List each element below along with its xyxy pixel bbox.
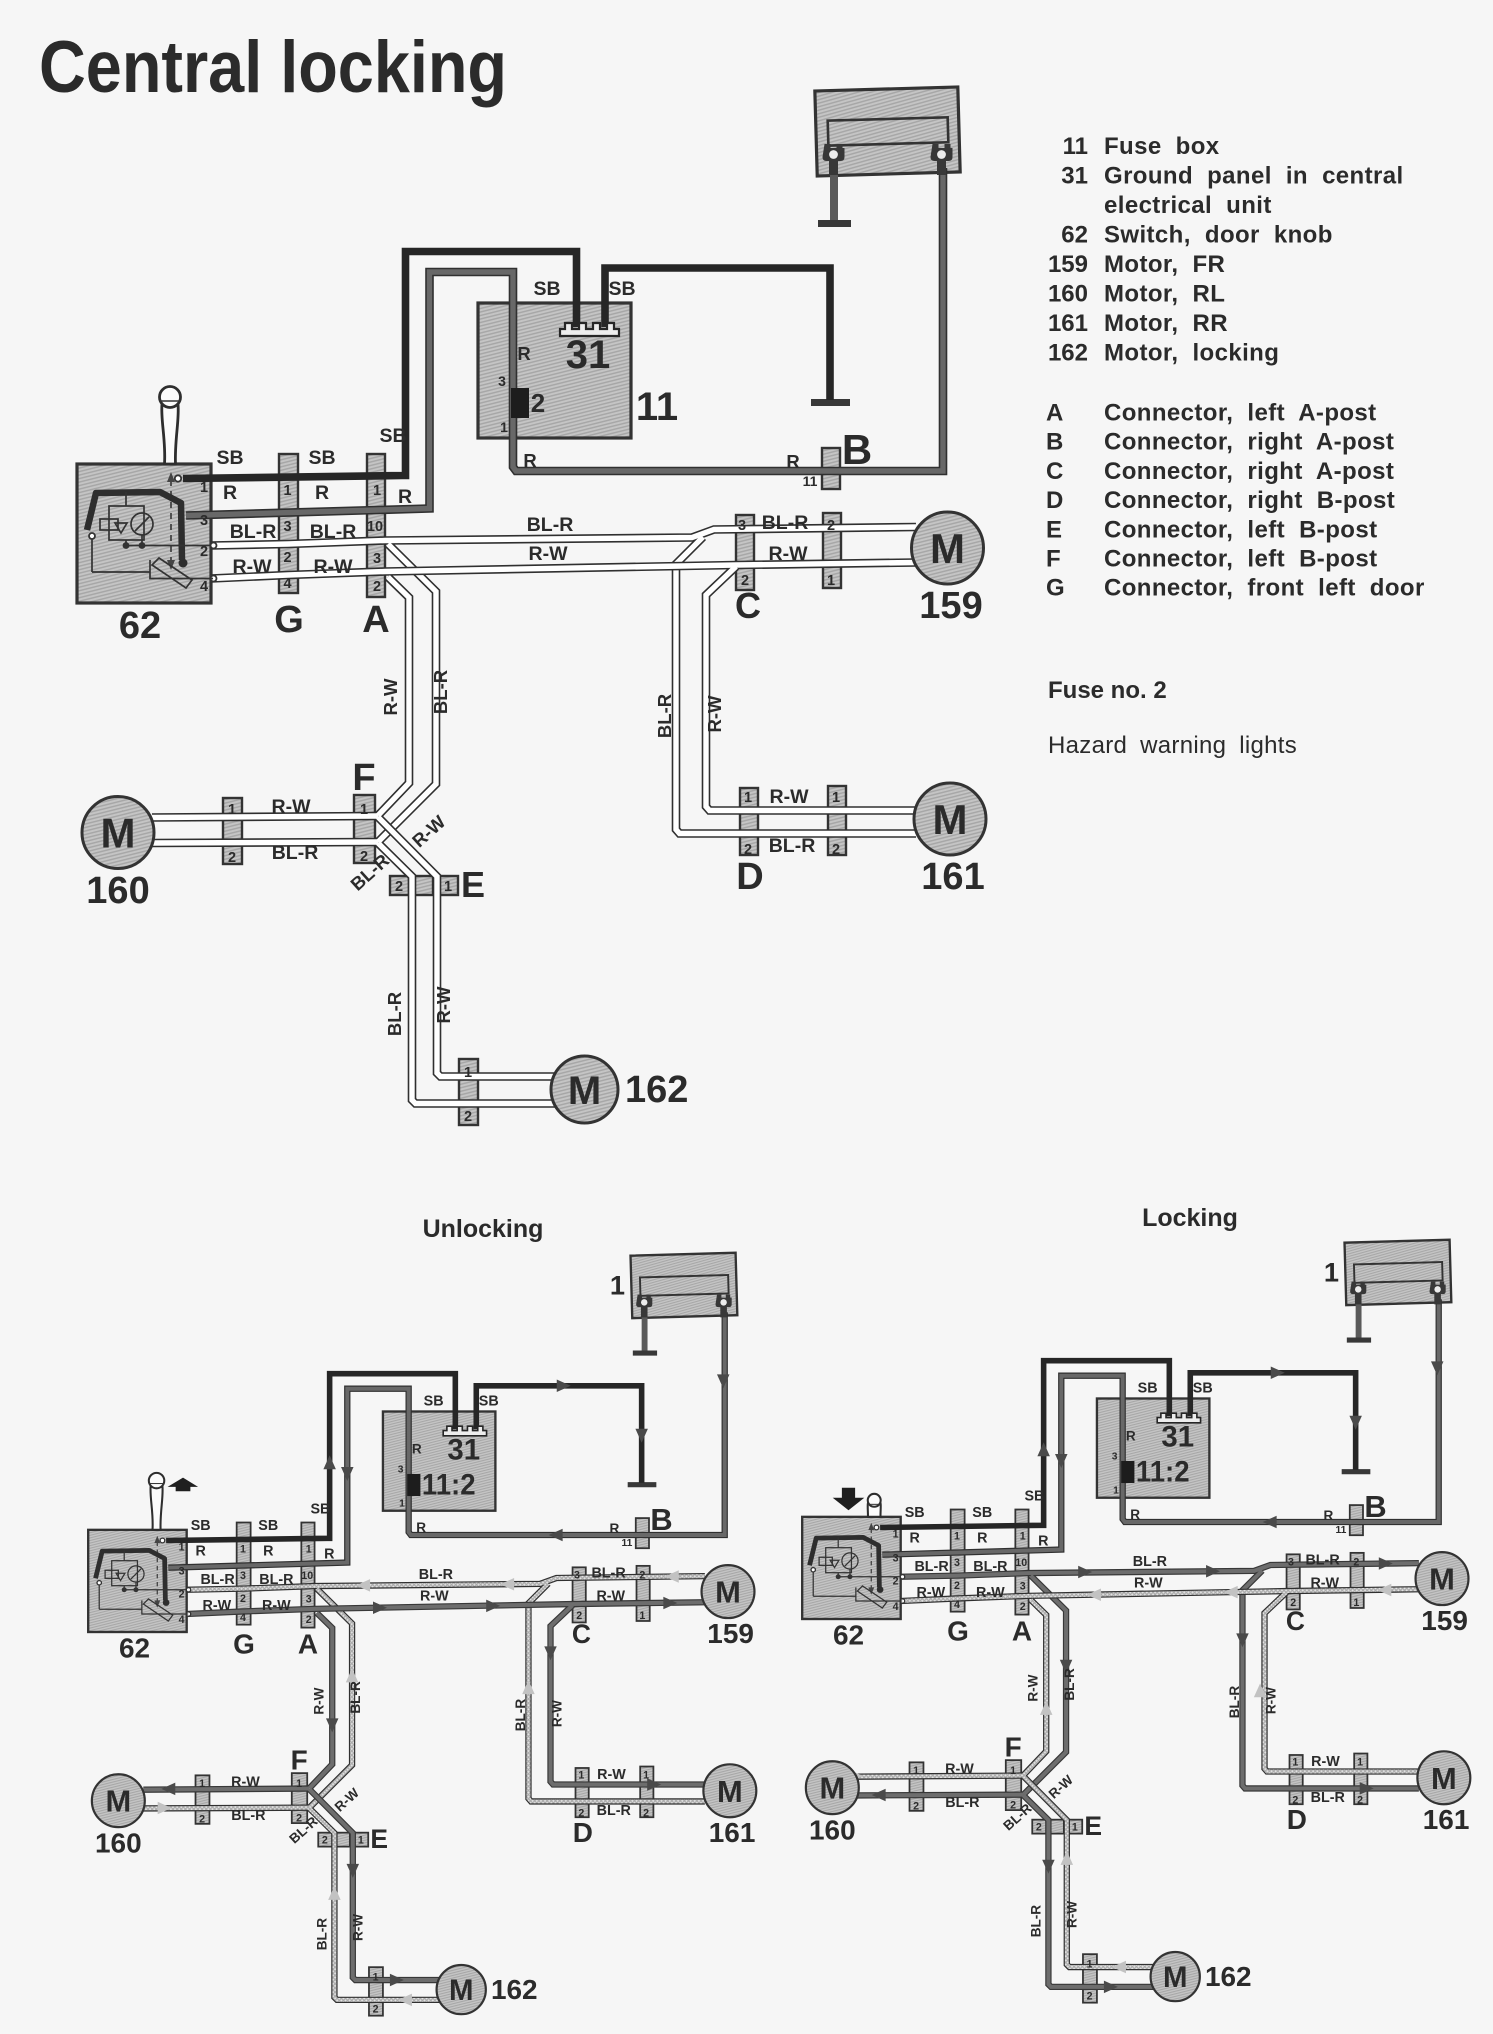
svg-text:C: C [1286,1606,1305,1636]
svg-text:M: M [715,1575,741,1610]
ground under battery (main diagram) [830,173,838,220]
wire BL-R branch A down to F pin2 (unlocking) core [309,1589,352,1808]
battery / supply box (main diagram) [815,87,960,176]
svg-text:R-W: R-W [945,1761,974,1777]
switch 62 pin1 contact (locking) [874,1525,879,1530]
svg-text:B: B [842,426,872,473]
svg-text:4: 4 [954,1599,960,1611]
connector 160 harness (main diagram) [223,798,242,864]
svg-text:31: 31 [1061,163,1088,190]
svg-text:1: 1 [643,1769,649,1781]
svg-text:4: 4 [200,579,208,595]
svg-text:162: 162 [491,1974,538,2005]
wire BL-R branch A down to F pin2 (main diagram) outline [378,544,436,842]
connector F (main diagram) [354,795,375,863]
svg-text:BL-R: BL-R [654,694,675,738]
svg-text:R: R [324,1547,335,1563]
wire R-W feed: switch pin4 through G/A to C and motor 159 (locking) outline [901,1589,1419,1601]
svg-text:R-W: R-W [332,1785,362,1814]
svg-text:11: 11 [803,473,818,489]
svg-text:R: R [786,451,799,472]
connector 161 harness (main diagram) [828,786,846,855]
switch 62 internal contact arm (main diagram) [87,492,182,560]
wire BL-R branch A down to F pin2 (locking) outline [1023,1576,1066,1795]
svg-text:3: 3 [398,1465,404,1476]
fuse box 11 body (unlocking) [383,1412,495,1511]
svg-text:1: 1 [1072,1822,1078,1834]
svg-text:Central locking: Central locking [39,27,507,108]
svg-text:3: 3 [240,1570,246,1582]
svg-text:159: 159 [1421,1605,1468,1636]
wire BL-R feed: switch pin2 through G/A to C and motor 159 (unlocking) core [187,1576,705,1590]
svg-text:3: 3 [738,518,746,534]
svg-text:G: G [1046,575,1065,602]
wire R-W branch at C down to D and motor 161 (main diagram) core [706,567,916,811]
svg-text:SB: SB [905,1505,925,1521]
wire BL-R motor 160 to F pin2 (main diagram) core [152,842,378,843]
svg-text:2: 2 [464,1109,472,1125]
svg-text:2: 2 [1292,1794,1298,1806]
connector 161 harness (locking) [1354,1754,1367,1805]
svg-text:4: 4 [893,1601,899,1613]
svg-text:R-W: R-W [1311,1754,1340,1770]
svg-text:R-W: R-W [350,1914,365,1941]
svg-text:F: F [291,1744,308,1775]
svg-text:2: 2 [395,879,403,895]
motor 159 (unlocking) [702,1565,755,1618]
svg-text:2: 2 [306,1614,312,1626]
switch 62 body (main diagram) [77,464,211,603]
svg-text:3: 3 [1288,1556,1294,1568]
svg-text:D: D [1046,487,1063,514]
svg-text:R-W: R-W [272,796,312,818]
svg-text:Connector, right A-post: Connector, right A-post [1104,458,1394,485]
wire R-W F pin1 via E to motor 162 (unlocking) outline [309,1789,439,1980]
svg-text:BL-R: BL-R [1028,1905,1043,1938]
wire R-W motor 160 to F pin1 (unlocking) core [143,1789,309,1790]
motor 159 (locking) [1416,1552,1469,1605]
wire R net: switch pin3 - fuse 11:2 - connector B - battery (unlocking) [168,1312,724,1567]
svg-text:1: 1 [744,790,752,806]
wire R-W feed: switch pin4 through G/A to C and motor 159 (main diagram) outline [211,563,916,579]
svg-text:2: 2 [373,2004,379,2016]
svg-text:2: 2 [179,1588,185,1600]
connector B (locking) [1350,1505,1363,1535]
svg-text:BL-R: BL-R [348,1681,363,1714]
switch 62 body (unlocking) [88,1530,186,1632]
svg-text:M: M [105,1784,131,1819]
svg-text:R-W: R-W [433,986,454,1024]
wire R-W F pin1 via E to motor 162 (locking) outline [1023,1776,1153,1967]
ground at right (SB) (locking) [1342,1468,1371,1475]
svg-text:SB: SB [972,1505,992,1521]
svg-text:BL-R: BL-R [259,1572,294,1588]
wire R-W branch A down to F pin1 (unlocking) outline [309,1613,332,1788]
connector F (locking) [1006,1760,1021,1810]
svg-text:3: 3 [893,1553,899,1565]
svg-text:1: 1 [639,1610,645,1622]
motor 159 (main diagram) [912,512,984,584]
svg-text:1: 1 [578,1769,584,1781]
svg-text:R-W: R-W [1046,1772,1076,1801]
svg-text:R: R [412,1441,422,1456]
wire BL-R motor 160 to F pin2 (locking) outline [857,1790,1023,1799]
svg-text:M: M [1431,1761,1457,1796]
connector D (locking) [1290,1755,1303,1804]
wire R net: switch pin3 - fuse 11:2 - connector B - battery (main diagram) [186,168,943,516]
wire R-W F pin1 via E to motor 162 (main diagram) outline [378,817,555,1077]
svg-text:11: 11 [636,385,678,429]
svg-text:1: 1 [1324,1257,1339,1288]
svg-text:2: 2 [893,1575,899,1587]
svg-text:R-W: R-W [1264,1687,1279,1714]
svg-text:SB: SB [379,425,406,447]
switch 62 pin1 contact (main diagram) [175,475,181,481]
switch 62 relay mechanism (main diagram) [92,492,213,572]
svg-text:159: 159 [1048,251,1088,278]
svg-text:BL-R: BL-R [230,521,277,543]
wire SB from ground panel 31 to right ground (locking) [1190,1373,1355,1470]
svg-text:Switch, door knob: Switch, door knob [1104,222,1333,249]
ground-panel comb symbol 31 (locking) [1157,1413,1200,1423]
svg-text:10: 10 [301,1570,313,1582]
svg-text:M: M [930,525,965,572]
svg-text:2: 2 [296,1813,302,1825]
svg-text:31: 31 [447,1433,480,1466]
switch 62 internal contact arm (unlocking) [96,1550,166,1600]
wire SB from switch pin1 through G/A up over to ground panel 31 (main diagram) [183,252,577,479]
svg-text:R: R [1126,1428,1136,1443]
svg-text:R: R [315,482,329,504]
wire R-W motor 160 to F pin1 (locking) outline [857,1776,1023,1777]
svg-text:1: 1 [610,1270,625,1301]
connector G (main diagram) [279,454,298,593]
svg-text:E: E [1084,1811,1102,1841]
svg-text:1: 1 [893,1528,899,1540]
wire R-W motor 160 to F pin1 (main diagram) core [152,816,378,818]
wire R-W F pin1 via E to motor 162 (main diagram) core [378,817,555,1077]
svg-text:G: G [947,1615,969,1646]
switch 62 pin2/pin4 terminals (locking) [900,1575,904,1579]
svg-text:SB: SB [1025,1489,1045,1505]
svg-text:1: 1 [1010,1765,1016,1777]
svg-text:electrical unit: electrical unit [1104,192,1272,219]
svg-text:R: R [1038,1534,1049,1550]
ground at right (SB) (unlocking) [628,1481,657,1488]
svg-text:2: 2 [1020,1601,1026,1613]
connector A (unlocking) [301,1522,314,1627]
switch 62 relay mechanism (locking) [813,1537,902,1596]
svg-text:BL-R: BL-R [1311,1790,1346,1806]
svg-text:BL-R: BL-R [527,514,574,536]
svg-text:A: A [362,599,389,641]
switch 62 internal dashed axis (locking) [870,1529,872,1589]
svg-text:Fuse box: Fuse box [1104,133,1220,160]
wire R net: switch pin3 - fuse 11:2 - connector B - battery (locking) [882,1299,1438,1554]
svg-text:2: 2 [1290,1597,1296,1609]
svg-text:R-W: R-W [1064,1901,1079,1928]
svg-text:SB: SB [533,278,560,300]
svg-text:R-W: R-W [1310,1575,1339,1591]
wire R-W branch at C down to D and motor 161 (locking) core [1265,1592,1419,1771]
svg-text:31: 31 [566,333,611,377]
wire R-W motor 160 to F pin1 (main diagram) outline [152,816,378,818]
svg-text:2: 2 [741,573,749,589]
svg-text:1: 1 [228,802,236,818]
svg-text:R-W: R-W [596,1588,625,1604]
svg-text:R-W: R-W [202,1598,231,1614]
svg-text:C: C [572,1619,591,1649]
svg-text:11: 11 [622,1538,633,1549]
svg-text:3: 3 [1020,1581,1026,1593]
wire BL-R motor 160 to F pin2 (unlocking) core [143,1805,309,1811]
svg-text:161: 161 [709,1817,756,1848]
svg-text:Connector, left B-post: Connector, left B-post [1104,546,1377,573]
svg-text:2: 2 [322,1835,328,1847]
svg-text:3: 3 [200,513,208,529]
svg-text:Motor, RL: Motor, RL [1104,281,1225,308]
switch 62 body (locking) [802,1517,900,1619]
svg-text:Ground panel in central: Ground panel in central [1104,163,1404,190]
svg-text:Fuse no. 2: Fuse no. 2 [1048,677,1167,704]
svg-text:M: M [1429,1562,1455,1597]
svg-text:R-W: R-W [769,543,809,565]
wire BL-R feed: switch pin2 through G/A to C and motor 159 (main diagram) outline [211,527,916,546]
svg-text:BL-R: BL-R [314,1918,329,1951]
motor 162 (main diagram) [551,1056,618,1123]
svg-text:159: 159 [707,1618,754,1649]
svg-text:160: 160 [809,1815,856,1846]
wire BL-R branch at C down to D and motor 161 (main diagram) outline [676,537,916,834]
wire BL-R F pin2 via E to motor 162 (locking) outline [1023,1795,1153,1986]
svg-text:M: M [717,1774,743,1809]
fuse box 11 body (locking) [1097,1399,1209,1498]
svg-text:BL-R: BL-R [1062,1668,1077,1701]
svg-text:1: 1 [358,1835,364,1847]
svg-text:11: 11 [1063,133,1088,160]
ground under battery (unlocking) [641,1316,649,1351]
svg-text:C: C [735,585,761,626]
svg-text:3: 3 [306,1594,312,1606]
svg-text:BL-R: BL-R [430,670,451,714]
svg-text:1: 1 [1020,1531,1026,1543]
svg-text:1: 1 [954,1531,960,1543]
svg-text:R-W: R-W [314,556,354,578]
svg-text:R: R [610,1521,620,1536]
connector C (main diagram) [736,515,754,590]
svg-text:R: R [977,1531,988,1547]
wire R-W feed: switch pin4 through G/A to C and motor 159 (unlocking) core [187,1602,705,1614]
svg-text:M: M [819,1771,845,1806]
motor 161 (locking) [1417,1751,1470,1804]
svg-text:Connector, right A-post: Connector, right A-post [1104,429,1394,456]
svg-text:BL-R: BL-R [945,1795,980,1811]
svg-text:161: 161 [1423,1804,1470,1835]
wire BL-R feed: switch pin2 through G/A to C and motor 159 (unlocking) outline [187,1576,705,1590]
svg-text:R-W: R-W [233,556,273,578]
wire BL-R branch at C down to D and motor 161 (locking) core [1242,1570,1418,1788]
svg-text:Connector, front left door: Connector, front left door [1104,575,1425,602]
svg-text:1: 1 [399,1498,405,1509]
svg-text:E: E [1046,516,1062,543]
switch 62 internal dashed axis (unlocking) [156,1542,158,1602]
wire BL-R branch A down to F pin2 (main diagram) core [378,544,436,842]
svg-text:SB: SB [424,1394,444,1410]
svg-text:2: 2 [1357,1794,1363,1806]
motor 160 (unlocking) [92,1774,145,1827]
wire BL-R branch at C down to D and motor 161 (locking) outline [1242,1570,1418,1788]
svg-text:Connector, right B-post: Connector, right B-post [1104,487,1395,514]
wire BL-R F pin2 via E to motor 162 (unlocking) core [309,1808,439,1999]
wire BL-R F pin2 via E to motor 162 (main diagram) outline [378,843,555,1104]
connector 160 harness (locking) [910,1762,924,1811]
door-lock knob, pushed down (locking) [868,1496,881,1517]
svg-text:2: 2 [913,1800,919,1812]
svg-text:R: R [1130,1507,1140,1522]
svg-text:11:2: 11:2 [422,1469,476,1502]
motor 162 (unlocking) [437,1965,486,2014]
wire BL-R feed: switch pin2 through G/A to C and motor 159 (main diagram) core [211,527,916,546]
ground-panel comb symbol 31 (main diagram) [560,323,619,336]
svg-text:1: 1 [373,1971,379,1983]
svg-text:M: M [449,1974,473,2007]
svg-text:R-W: R-W [380,678,401,716]
wire R-W feed: switch pin4 through G/A to C and motor 159 (locking) core [901,1589,1419,1601]
svg-text:BL-R: BL-R [769,835,816,857]
svg-text:D: D [736,856,763,898]
svg-text:31: 31 [1161,1420,1194,1453]
wire R-W branch at C down to D and motor 161 (main diagram) outline [706,567,916,811]
svg-text:R-W: R-W [1025,1674,1040,1701]
switch 62 internal dashed axis (main diagram) [170,480,172,562]
svg-text:R-W: R-W [262,1598,291,1614]
svg-text:R: R [195,1544,206,1560]
svg-text:R-W: R-W [704,695,725,733]
actuation arrow pointing down (locking) [833,1488,865,1510]
wire R-W branch A down to F pin1 (locking) core [1023,1600,1046,1775]
svg-text:R: R [523,450,536,471]
svg-text:2: 2 [1036,1822,1042,1834]
svg-text:M: M [933,796,968,843]
svg-text:R-W: R-W [916,1585,945,1601]
actuation arrow pointing up (unlocking) [168,1478,199,1492]
ground at right (SB) (main diagram) [811,399,850,406]
svg-text:F: F [1046,546,1061,573]
fuse connector block 11:2 (main diagram) [511,388,529,418]
connector B (unlocking) [636,1518,649,1548]
svg-text:4: 4 [179,1614,185,1626]
svg-text:1: 1 [832,790,840,806]
svg-text:Motor, FR: Motor, FR [1104,251,1225,278]
door-lock knob, pulled up (main diagram) [162,397,179,465]
svg-text:1: 1 [1113,1485,1119,1496]
svg-text:BL-R: BL-R [310,521,357,543]
wire R-W branch A down to F pin1 (main diagram) core [378,577,409,816]
svg-text:62: 62 [119,1633,150,1664]
svg-text:2: 2 [240,1593,246,1605]
svg-text:Motor, locking: Motor, locking [1104,340,1279,367]
svg-text:2: 2 [643,1807,649,1819]
svg-text:160: 160 [86,870,149,912]
wire R-W motor 160 to F pin1 (locking) core [857,1776,1023,1777]
motor 160 (locking) [806,1761,859,1814]
svg-text:SB: SB [1138,1381,1158,1397]
svg-text:2: 2 [360,849,368,865]
switch 62 pin1 contact (unlocking) [160,1538,165,1543]
svg-text:1: 1 [444,879,452,895]
return arrows on R-W path (locking) [1087,1589,1101,1601]
wire R-W feed: switch pin4 through G/A to C and motor 159 (unlocking) outline [187,1602,705,1614]
wire R-W branch at C down to D and motor 161 (unlocking) outline [551,1605,705,1784]
switch 62 relay mechanism (unlocking) [99,1550,188,1609]
svg-text:F: F [352,757,375,799]
switch 62 slide contact (main diagram) [150,560,213,579]
wire SB from ground panel 31 to right ground (main diagram) [605,268,830,400]
wire SB from switch pin1 through G/A up over to ground panel 31 (unlocking) [166,1374,455,1541]
connector 160 harness (unlocking) [196,1775,210,1824]
svg-text:159: 159 [919,585,982,627]
svg-text:Unlocking: Unlocking [423,1215,544,1243]
svg-text:Connector, left A-post: Connector, left A-post [1104,400,1377,427]
connector E (unlocking) [318,1833,332,1847]
ground-panel comb symbol 31 (unlocking) [443,1426,486,1436]
svg-text:R-W: R-W [231,1774,260,1790]
fuse connector block 11:2 (locking) [1121,1461,1134,1483]
wire BL-R branch at C down to D and motor 161 (main diagram) core [676,537,916,834]
connector 159 harness (main diagram) [823,513,841,588]
svg-text:2: 2 [578,1807,584,1819]
svg-text:BL-R: BL-R [384,992,405,1036]
svg-text:3: 3 [1112,1452,1118,1463]
svg-text:2: 2 [373,579,381,595]
svg-text:3: 3 [954,1557,960,1569]
current-flow arrows on SB/R path (unlocking) [323,1455,335,1469]
svg-text:R-W: R-W [1134,1575,1163,1591]
svg-text:1: 1 [1353,1597,1359,1609]
wire R-W branch at C down to D and motor 161 (unlocking) core [551,1605,705,1784]
svg-text:B: B [1046,429,1063,456]
svg-text:10: 10 [367,519,383,535]
wire R-W branch A down to F pin1 (unlocking) core [309,1613,332,1788]
wire BL-R branch at C down to D and motor 161 (unlocking) outline [528,1583,704,1801]
svg-text:1: 1 [913,1765,919,1777]
svg-text:D: D [573,1817,593,1848]
svg-text:2: 2 [531,388,545,418]
svg-text:BL-R: BL-R [762,512,809,534]
wire R-W feed: switch pin4 through G/A to C and motor 159 (main diagram) core [211,563,916,579]
svg-text:1: 1 [1292,1756,1298,1768]
svg-text:Connector, left B-post: Connector, left B-post [1104,516,1377,543]
svg-text:1: 1 [360,802,368,818]
connector G (locking) [951,1509,965,1611]
switch 62 slide contact (locking) [856,1587,902,1601]
svg-text:1: 1 [240,1544,246,1556]
svg-text:A: A [298,1628,318,1659]
battery terminals (main diagram) [823,144,845,175]
svg-text:1: 1 [373,483,381,499]
svg-text:SB: SB [308,447,335,469]
current-flow arrows on SB/R path (locking) [1037,1442,1049,1456]
svg-text:R-W: R-W [976,1585,1005,1601]
wire BL-R F pin2 via E to motor 162 (locking) core [1023,1795,1153,1986]
connector 162 harness (main diagram) [459,1059,478,1125]
svg-text:11:2: 11:2 [1136,1456,1190,1489]
svg-text:BL-R: BL-R [591,1566,626,1582]
svg-text:R: R [223,482,237,504]
svg-text:M: M [101,810,136,857]
svg-text:3: 3 [283,519,291,535]
svg-text:2: 2 [200,544,208,560]
